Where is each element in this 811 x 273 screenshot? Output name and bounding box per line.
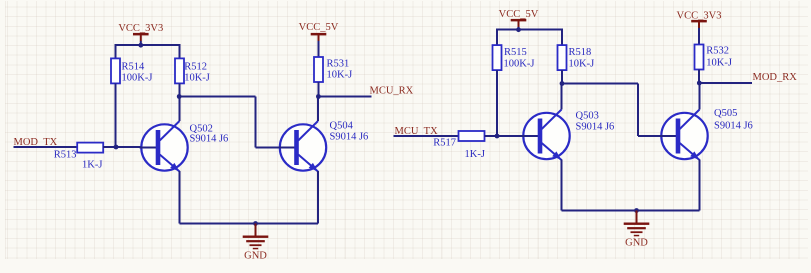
svg-text:VCC_5V: VCC_5V (299, 22, 339, 33)
svg-text:R532: R532 (706, 46, 729, 57)
svg-text:100K-J: 100K-J (504, 59, 535, 70)
svg-text:Q503: Q503 (576, 110, 599, 121)
svg-text:R517: R517 (433, 137, 456, 148)
svg-text:S9014 J6: S9014 J6 (576, 122, 615, 133)
svg-text:VCC_5V: VCC_5V (499, 9, 539, 20)
svg-text:S9014 J6: S9014 J6 (714, 120, 753, 131)
svg-text:Q504: Q504 (330, 120, 354, 131)
svg-text:GND: GND (625, 238, 648, 249)
svg-text:R513: R513 (54, 150, 77, 161)
svg-text:R514: R514 (122, 61, 146, 72)
svg-text:VCC_3V3: VCC_3V3 (677, 10, 722, 21)
svg-text:R518: R518 (569, 47, 592, 58)
svg-text:10K-J: 10K-J (706, 58, 732, 69)
svg-text:MOD_RX: MOD_RX (753, 72, 798, 83)
svg-text:R512: R512 (184, 61, 207, 72)
svg-text:MCU_RX: MCU_RX (370, 86, 414, 97)
svg-text:1K-J: 1K-J (82, 160, 102, 171)
svg-text:1K-J: 1K-J (465, 149, 485, 160)
svg-text:10K-J: 10K-J (327, 70, 353, 81)
svg-text:S9014 J6: S9014 J6 (190, 134, 229, 145)
svg-text:R531: R531 (327, 58, 350, 69)
svg-text:VCC_3V3: VCC_3V3 (118, 23, 163, 34)
svg-text:S9014 J6: S9014 J6 (330, 132, 369, 143)
svg-text:R515: R515 (504, 47, 527, 58)
svg-text:10K-J: 10K-J (569, 59, 595, 70)
svg-text:100K-J: 100K-J (122, 72, 153, 83)
svg-text:10K-J: 10K-J (184, 72, 210, 83)
svg-text:Q505: Q505 (714, 108, 737, 119)
svg-text:GND: GND (244, 251, 267, 262)
